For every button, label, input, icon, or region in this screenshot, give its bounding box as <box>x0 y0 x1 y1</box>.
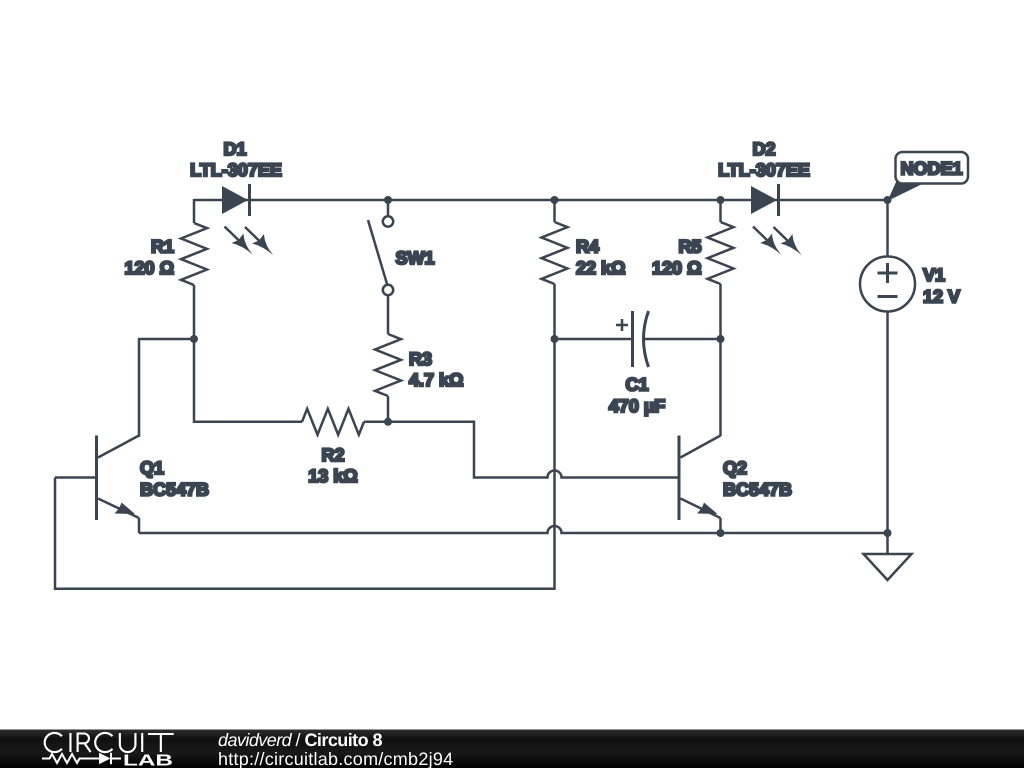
wire: Q1 base lead <box>55 476 96 479</box>
svg-text:LTL-307EE: LTL-307EE <box>190 160 282 180</box>
LED D1 light arrow 2 <box>245 227 274 256</box>
wire: C1 right plate to right node <box>645 338 721 341</box>
wire: R2 right lead to node <box>364 421 388 424</box>
svg-text:LAB: LAB <box>123 753 173 768</box>
wire: emitter/ground rail (hops over feedback column) <box>139 526 888 533</box>
wire: rail to SW1 top terminal <box>387 200 390 216</box>
transistor Q1 emitter lead <box>98 499 139 519</box>
svg-text:Q1: Q1 <box>140 458 164 478</box>
junction dot: C1 right node <box>717 335 725 343</box>
diode D1 cathode bar <box>248 184 251 216</box>
junction dot: R4 top on rail <box>551 196 559 204</box>
resistor R1 <box>181 223 207 285</box>
svg-text:V1: V1 <box>923 265 945 285</box>
wire: R2/R3 node to Q2 base (hops over feedback column) <box>388 422 678 478</box>
capacitor C1 plus sign <box>616 319 628 331</box>
svg-text:Q2: Q2 <box>723 458 747 478</box>
svg-text:davidverd / Circuito 8: davidverd / Circuito 8 <box>218 730 383 750</box>
junction dot: Q2 emitter on rail <box>717 529 725 537</box>
LED D2 light arrow 2 <box>774 227 803 256</box>
CircuitLab logo CIRCUIT wordmark (skeleton strokes) <box>45 733 174 752</box>
svg-text:SW1: SW1 <box>396 248 435 268</box>
wire: SW1 bottom to R3 top <box>387 296 390 335</box>
junction dot: R5 top on rail <box>717 196 725 204</box>
wire: top V+ rail y=200 <box>194 199 888 202</box>
wire: junction left to Q1 collector column <box>139 339 194 437</box>
svg-text:13 kΩ: 13 kΩ <box>308 466 357 486</box>
svg-text:LTL-307EE: LTL-307EE <box>718 160 810 180</box>
svg-text:BC547B: BC547B <box>140 480 209 500</box>
resistor R5 <box>708 222 734 284</box>
ground symbol <box>864 554 912 580</box>
voltage source V1 circle <box>860 257 915 312</box>
voltage source V1 plus sign <box>878 263 898 283</box>
svg-text:R1: R1 <box>151 237 174 257</box>
transistor Q1 emitter arrow <box>115 503 136 515</box>
capacitor C1 negative curved plate <box>644 311 649 367</box>
wire: ground stem <box>886 533 889 554</box>
diode D2 (LED) body <box>751 186 777 214</box>
wire: R3 bottom to node <box>387 396 390 422</box>
switch SW1 blade <box>368 220 387 284</box>
svg-text:NODE1: NODE1 <box>900 159 962 179</box>
wire: R1 bottom to junction <box>193 285 196 339</box>
junction dot: C1 left node <box>551 335 559 343</box>
LED D1 light arrow 1 <box>225 227 254 256</box>
LED D2 light arrow 1 <box>753 227 782 256</box>
wire: R4 bottom to C1 left node, continuing down to feedback loop to Q1 base <box>55 284 555 589</box>
transistor Q1 collector lead <box>98 436 139 458</box>
svg-text:22 kΩ: 22 kΩ <box>576 258 625 278</box>
junction dot: R1 bottom node <box>190 335 198 343</box>
junction dot: ground node <box>884 529 892 537</box>
svg-text:R5: R5 <box>678 237 701 257</box>
svg-text:R3: R3 <box>409 349 432 369</box>
svg-text:BC547B: BC547B <box>723 480 792 500</box>
wire: Q1 emitter to ground rail <box>138 518 141 533</box>
resistor R4 <box>542 222 568 284</box>
wire: junction down to R2 left lead <box>194 339 302 422</box>
wire: NODE1 to V1 top <box>886 200 889 257</box>
capacitor C1 positive plate <box>631 311 634 367</box>
wire: V1 bottom to ground rail <box>886 312 889 534</box>
wire: Q2 emitter to ground rail <box>719 518 722 533</box>
switch SW1 bottom terminal <box>383 285 393 295</box>
wire: C1 left node to left plate <box>555 338 632 341</box>
resistor R3 <box>375 334 401 396</box>
svg-text:D1: D1 <box>223 139 246 159</box>
junction dot: NODE1 on rail <box>884 196 892 204</box>
svg-text:http://circuitlab.com/cmb2j94: http://circuitlab.com/cmb2j94 <box>218 749 453 768</box>
wire: R5 bottom to C1 right node <box>719 284 722 339</box>
transistor Q1 base bar <box>95 436 98 521</box>
footer bar <box>0 730 1024 768</box>
svg-text:12 V: 12 V <box>923 287 960 307</box>
svg-text:4.7 kΩ: 4.7 kΩ <box>409 370 463 390</box>
transistor Q2 emitter arrow <box>697 503 718 515</box>
junction dot: R2/R3 node <box>384 418 392 426</box>
diode D1 (LED) body <box>222 186 248 214</box>
wire: Q2 collector to C1 right node <box>719 339 722 436</box>
CircuitLab logo resistor-diode glyph <box>42 753 121 764</box>
svg-text:R2: R2 <box>321 445 344 465</box>
node NODE1 flag box <box>896 152 969 184</box>
transistor Q2 emitter lead <box>681 499 721 519</box>
switch SW1 top terminal <box>383 216 393 226</box>
wire: left branch from rail down to R1 top <box>193 199 196 223</box>
transistor Q2 collector lead <box>681 436 721 458</box>
junction dot: SW1 top on rail <box>384 196 392 204</box>
node NODE1 flag pointer <box>888 181 929 201</box>
svg-text:470 µF: 470 µF <box>609 396 665 416</box>
diode D2 cathode bar <box>777 184 780 216</box>
svg-text:C1: C1 <box>625 375 648 395</box>
svg-text:120 Ω: 120 Ω <box>652 258 701 278</box>
svg-text:D2: D2 <box>752 139 775 159</box>
svg-text:R4: R4 <box>576 237 599 257</box>
svg-text:120 Ω: 120 Ω <box>125 258 174 278</box>
transistor Q2 base bar <box>678 436 681 521</box>
wire: rail to R5 top <box>719 200 722 222</box>
voltage source V1 minus sign <box>878 295 898 298</box>
wire: rail to R4 top <box>553 200 556 222</box>
resistor R2 <box>302 409 364 435</box>
